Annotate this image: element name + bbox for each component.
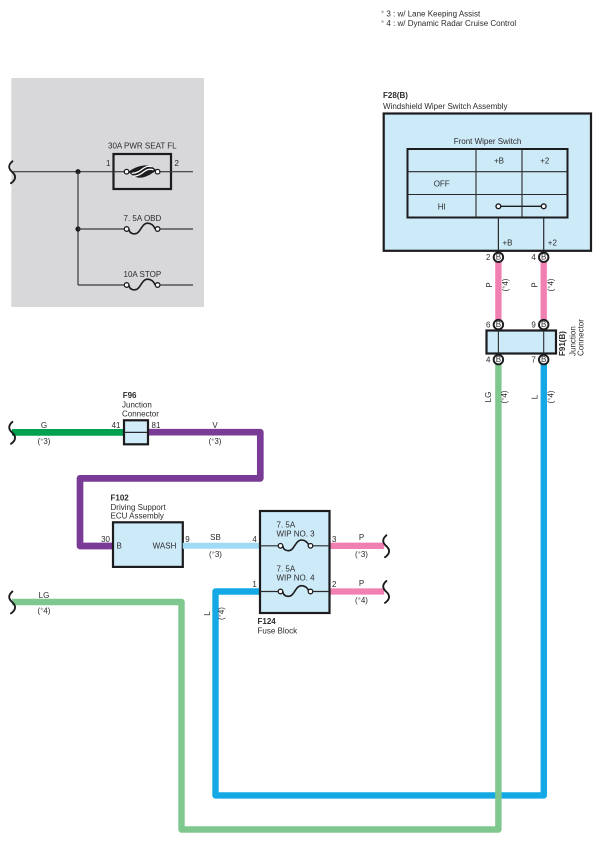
svg-text:1: 1 [252, 580, 257, 589]
svg-text:B: B [541, 253, 546, 262]
pin 4(B) [531, 252, 548, 262]
table row line 2 [408, 194, 568, 196]
circuit breaker element [114, 165, 172, 177]
svg-text:2: 2 [486, 253, 491, 262]
svg-text:G: G [41, 421, 47, 430]
svg-text:WASH: WASH [153, 542, 177, 551]
svg-text:B: B [541, 355, 546, 364]
F124 Fuse Block box [260, 511, 330, 613]
svg-text:WIP NO. 4: WIP NO. 4 [277, 574, 316, 583]
wire +B internal [497, 218, 499, 251]
svg-text:L: L [203, 611, 212, 616]
svg-text:+B: +B [503, 238, 513, 247]
svg-text:(*4): (*4) [500, 390, 509, 403]
svg-text:(*3): (*3) [209, 437, 222, 446]
svg-text:41: 41 [112, 421, 121, 430]
svg-text:(*3): (*3) [209, 550, 222, 559]
svg-text:B: B [496, 355, 501, 364]
svg-text:30: 30 [101, 535, 110, 544]
wire break squiggle P3 [383, 535, 389, 557]
svg-text:B: B [117, 542, 122, 551]
svg-text:+2: +2 [540, 157, 550, 166]
F102 Driving Support ECU Assembly box [113, 522, 183, 567]
wire G (green) [12, 429, 124, 436]
wire L (blue) F124 pin1 to F91 pin7 [216, 363, 544, 795]
svg-text:Front Wiper Switch: Front Wiper Switch [454, 137, 522, 146]
wire P (pink) from WIP NO.3 [330, 543, 385, 549]
F96 internal line [124, 431, 148, 433]
svg-text:V: V [212, 421, 218, 430]
svg-text:Connector: Connector [576, 319, 585, 356]
svg-text:+2: +2 [548, 238, 558, 247]
svg-text:4: 4 [531, 253, 536, 262]
wire P (pink) +2 pin4 to F91 pin9 [541, 261, 547, 321]
svg-text:(*3): (*3) [38, 437, 51, 446]
svg-text:(*4): (*4) [217, 607, 226, 620]
pin 2(B) [486, 252, 503, 262]
F96 junction connector box [124, 420, 148, 444]
svg-text:SB: SB [210, 533, 221, 542]
svg-text:(*4): (*4) [38, 607, 51, 616]
wire (junction vertical) [77, 172, 79, 285]
svg-text:P: P [530, 282, 539, 287]
svg-text:LG: LG [484, 392, 493, 403]
table row line 1 [408, 171, 568, 173]
wire break squiggle (power feed left) [9, 161, 15, 183]
svg-text:HI: HI [438, 202, 446, 211]
svg-text:7. 5A OBD: 7. 5A OBD [124, 214, 162, 223]
svg-text:P: P [359, 533, 364, 542]
svg-text:1: 1 [106, 159, 111, 168]
svg-text:P: P [359, 579, 364, 588]
svg-text:B: B [496, 320, 501, 329]
fuse 7.5A WIP NO.3 [260, 540, 330, 551]
svg-text:* 4 : w/ Dynamic Radar Cruise: * 4 : w/ Dynamic Radar Cruise Control [381, 19, 516, 28]
power source block (gray) [11, 78, 204, 307]
wire (breaker output) [171, 171, 193, 173]
svg-text:Junction: Junction [122, 401, 152, 410]
svg-text:3: 3 [332, 535, 337, 544]
svg-text:10A STOP: 10A STOP [124, 270, 162, 279]
svg-text:(*4): (*4) [546, 278, 555, 291]
svg-text:2: 2 [332, 580, 337, 589]
wire V (purple) F96 to F102 [80, 432, 260, 546]
svg-text:4: 4 [252, 535, 257, 544]
svg-text:F91(B): F91(B) [558, 331, 567, 356]
svg-text:(*4): (*4) [546, 390, 555, 403]
svg-text:(*4): (*4) [355, 596, 368, 605]
svg-text:Windshield Wiper Switch Assemb: Windshield Wiper Switch Assembly [383, 102, 507, 111]
wire LG (light green) from left to F91 pin4 [12, 363, 498, 830]
svg-text:Connector: Connector [122, 410, 159, 419]
svg-text:2: 2 [175, 159, 180, 168]
svg-text:F28(B): F28(B) [383, 91, 408, 100]
wire break squiggle P4 [383, 581, 389, 603]
F28(B) Windshield Wiper Switch Assembly box [384, 114, 591, 251]
svg-text:9: 9 [531, 321, 536, 330]
svg-text:(*3): (*3) [355, 550, 368, 559]
fuse 7.5A OBD [78, 223, 193, 234]
svg-text:+B: +B [494, 157, 504, 166]
svg-text:81: 81 [152, 421, 161, 430]
wire break squiggle G left [9, 422, 15, 444]
F91 internal line right [543, 331, 545, 354]
svg-text:9: 9 [185, 535, 190, 544]
HI contact bridge [496, 204, 546, 209]
F91 internal line left [497, 331, 499, 354]
circuit breaker box [114, 154, 172, 189]
svg-text:Fuse Block: Fuse Block [258, 627, 299, 636]
fuse 10A STOP [78, 279, 193, 290]
table column line 2 [521, 149, 523, 218]
svg-text:(*4): (*4) [501, 278, 510, 291]
pin 4(B) lower [486, 355, 503, 365]
svg-text:4: 4 [486, 356, 491, 365]
svg-text:7. 5A: 7. 5A [277, 521, 296, 530]
wire P (pink) +B pin2 to F91 pin6 [495, 261, 501, 321]
fuse 7.5A WIP NO.4 [260, 586, 330, 597]
pin 7(B) [531, 355, 548, 365]
wire (power feed horizontal) [13, 171, 114, 173]
switch table frame [408, 149, 568, 218]
svg-text:* 3 : w/ Lane Keeping Assist: * 3 : w/ Lane Keeping Assist [381, 10, 481, 19]
svg-text:30A PWR SEAT FL: 30A PWR SEAT FL [108, 142, 177, 151]
svg-text:LG: LG [39, 591, 50, 600]
node junction dot OBD [75, 226, 80, 231]
wire +2 internal [543, 218, 545, 251]
svg-text:6: 6 [486, 321, 491, 330]
svg-text:F96: F96 [123, 391, 137, 400]
svg-text:7: 7 [531, 356, 536, 365]
pin 9(B) [531, 320, 548, 330]
svg-text:B: B [496, 253, 501, 262]
table column line 1 [475, 149, 477, 218]
svg-text:7. 5A: 7. 5A [277, 565, 296, 574]
svg-text:WIP NO. 3: WIP NO. 3 [277, 530, 316, 539]
svg-text:P: P [485, 282, 494, 287]
svg-text:B: B [541, 320, 546, 329]
wire P (pink) from WIP NO.4 [330, 588, 385, 594]
node junction dot [75, 169, 80, 174]
svg-text:F124: F124 [258, 617, 277, 626]
wire SB (sky blue) F102 to F124 [183, 543, 260, 549]
svg-text:F102: F102 [111, 494, 130, 503]
svg-text:OFF: OFF [434, 179, 450, 188]
wire break squiggle LG left [9, 592, 15, 614]
svg-text:L: L [530, 394, 539, 399]
F91(B) junction connector box [487, 331, 557, 354]
pin 6(B) [486, 320, 503, 330]
svg-text:ECU Assembly: ECU Assembly [111, 512, 164, 521]
